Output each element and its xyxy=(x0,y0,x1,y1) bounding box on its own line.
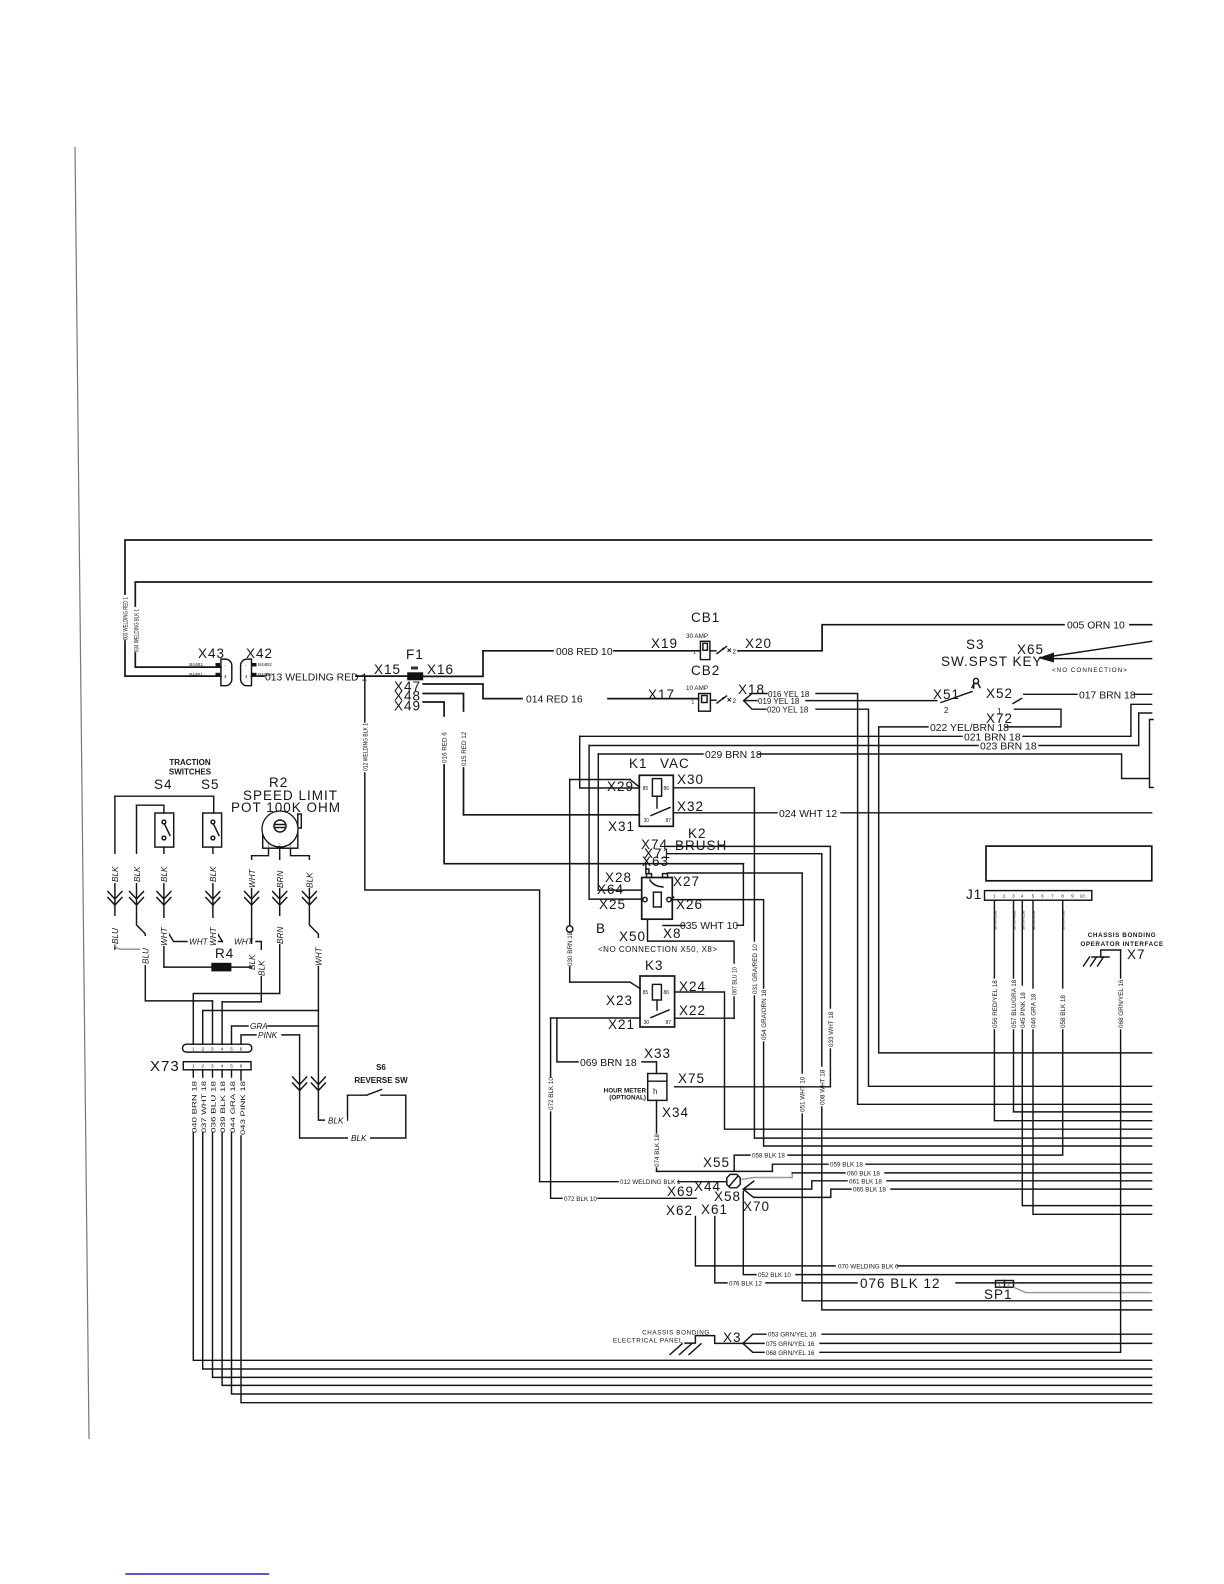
left sheet border xyxy=(75,147,89,1439)
wire 014 RED 16 to CB2 xyxy=(526,695,699,706)
node X16 xyxy=(427,662,454,677)
svg-text:K1: K1 xyxy=(629,756,648,771)
svg-text:X23: X23 xyxy=(606,993,633,1008)
note no connection X50 X8 xyxy=(598,945,718,954)
svg-text:X32: X32 xyxy=(677,799,704,814)
wire pot leg2 BRN to pin1 xyxy=(193,848,285,1044)
wire X47 branch to 014 RED 16 xyxy=(423,684,522,699)
node X18 xyxy=(738,682,765,697)
svg-text:86: 86 xyxy=(664,990,670,996)
svg-text:4: 4 xyxy=(221,1047,224,1052)
node X19 xyxy=(651,636,678,651)
svg-text:10 AMP: 10 AMP xyxy=(686,685,708,692)
node X62 wire 070 WELDING BLK 6 xyxy=(666,1203,1152,1270)
svg-text:S4: S4 xyxy=(154,777,173,792)
wire J1 pin8 058 BLK 18 riser xyxy=(1060,995,1067,1028)
circuit breaker CB2 10 AMP xyxy=(686,663,737,711)
wire X73-4 to right edge xyxy=(222,1070,1152,1386)
wire 029 BRN 18 xyxy=(598,750,1149,779)
svg-text:6: 6 xyxy=(240,1064,243,1069)
wire 059 BLK 18 xyxy=(772,1162,1151,1172)
svg-text:X3: X3 xyxy=(723,1330,742,1345)
connector X73 row1 xyxy=(183,1044,252,1052)
svg-text:X17: X17 xyxy=(648,687,675,702)
svg-text:069 BRN 18: 069 BRN 18 xyxy=(580,1058,637,1069)
node X55 junction xyxy=(657,1155,773,1171)
wire J1 pin3 057 BLU/GRA 18 xyxy=(1011,900,1152,1112)
wire 065 BLK 18 xyxy=(743,1187,1151,1198)
svg-text:B44B1: B44B1 xyxy=(189,662,203,667)
connector J1 xyxy=(966,887,1092,902)
svg-text:(OPTIONAL): (OPTIONAL) xyxy=(609,1095,646,1102)
svg-text:WHT: WHT xyxy=(209,926,218,946)
svg-text:2: 2 xyxy=(202,1047,205,1052)
svg-text:1: 1 xyxy=(692,700,695,706)
wire WHT bus xyxy=(189,938,261,1002)
svg-text:3: 3 xyxy=(1012,894,1015,899)
svg-text:061 BLK 18: 061 BLK 18 xyxy=(849,1178,882,1185)
labels X73 output wires xyxy=(191,1080,247,1135)
svg-text:2: 2 xyxy=(202,1064,205,1069)
svg-text:074 BLK 18: 074 BLK 18 xyxy=(654,1134,661,1167)
svg-text:003 WELDING RED 1: 003 WELDING RED 1 xyxy=(123,597,130,640)
switch S6 REVERSE SW xyxy=(348,1063,409,1095)
svg-text:WHT: WHT xyxy=(315,946,324,966)
svg-text:052 BLK 10: 052 BLK 10 xyxy=(758,1272,791,1279)
svg-text:B: B xyxy=(596,921,606,936)
wire X73-2 to right edge xyxy=(203,1070,1152,1369)
hour meter optional xyxy=(604,1074,667,1102)
svg-text:3: 3 xyxy=(211,1064,214,1069)
wire 053 GRN/YEL 16 xyxy=(743,1332,1152,1344)
svg-text:4: 4 xyxy=(245,674,248,679)
wire fuse output node xyxy=(423,651,483,677)
svg-text:8: 8 xyxy=(1061,894,1064,899)
svg-text:060 BLK 18: 060 BLK 18 xyxy=(847,1170,880,1177)
svg-text:X62: X62 xyxy=(666,1203,693,1218)
svg-text:4.75R: 4.75R xyxy=(214,965,228,971)
svg-text:053 GRN/YEL 16: 053 GRN/YEL 16 xyxy=(768,1332,817,1339)
ground chassis bonding operator interface X7 xyxy=(1080,932,1163,966)
svg-text:S3: S3 xyxy=(966,637,985,652)
svg-text:X21: X21 xyxy=(608,1017,635,1032)
wire X73-3 to right edge xyxy=(213,1070,1152,1378)
wire 068 GRN/YEL 16 from X7 xyxy=(1118,950,1125,1352)
node X64 wire from 029 riser xyxy=(597,754,642,897)
node X74 wire to 033 WHT 18 xyxy=(641,837,835,1087)
svg-text:2: 2 xyxy=(733,698,737,705)
wire X73-1 to right edge xyxy=(193,1070,1151,1361)
svg-text:2: 2 xyxy=(1007,1282,1010,1287)
svg-text:015 RED 12: 015 RED 12 xyxy=(461,731,468,766)
svg-text:WHT: WHT xyxy=(160,926,169,946)
svg-text:87: 87 xyxy=(666,818,672,824)
wire harness BLK/BLU left 2 xyxy=(132,805,213,1001)
svg-text:OPERATOR INTERFACE: OPERATOR INTERFACE xyxy=(1080,941,1163,948)
node X52 xyxy=(986,686,1013,716)
wire harness BLK/BLU left 1 xyxy=(110,796,145,949)
svg-text:X51: X51 xyxy=(933,687,960,702)
connector X42 xyxy=(241,646,273,686)
svg-text:031 GRA/RED 10: 031 GRA/RED 10 xyxy=(752,944,759,994)
wire PINK to S6 xyxy=(241,1031,406,1143)
svg-text:X20: X20 xyxy=(745,636,772,651)
svg-text:BLK: BLK xyxy=(306,872,315,888)
svg-text:h: h xyxy=(653,1087,657,1096)
node X70 wire 052 BLK 10 xyxy=(743,1192,1152,1280)
svg-text:X65: X65 xyxy=(1017,642,1044,657)
resistor R4 4.75R xyxy=(164,946,252,971)
svg-text:86: 86 xyxy=(664,786,670,792)
svg-text:X49: X49 xyxy=(394,699,421,714)
node X25 wire from 023 riser xyxy=(589,746,642,913)
svg-text:BLK: BLK xyxy=(351,1134,367,1143)
node X34 wire 074 BLK 18 xyxy=(654,1100,689,1171)
svg-text:BRN: BRN xyxy=(276,927,285,944)
blue reference line bottom xyxy=(125,1573,269,1575)
svg-text:X7: X7 xyxy=(1127,947,1146,962)
svg-text:X16: X16 xyxy=(427,662,454,677)
node X24 loop to X22 xyxy=(675,979,725,1018)
svg-text:<NO CONNECTION X50, X8>: <NO CONNECTION X50, X8> xyxy=(598,945,718,954)
svg-text:X29: X29 xyxy=(607,779,634,794)
svg-text:X30: X30 xyxy=(677,772,704,787)
node X33 xyxy=(644,1046,671,1074)
svg-text:BLU: BLU xyxy=(142,948,151,964)
svg-text:BLK: BLK xyxy=(328,1117,344,1126)
svg-text:X15: X15 xyxy=(374,662,401,677)
ground chassis bonding electrical panel X3 xyxy=(613,1330,743,1355)
svg-text:38-00-0038: 38-00-0038 xyxy=(1062,911,1066,930)
svg-text:040 BRN 18: 040 BRN 18 xyxy=(191,1080,198,1133)
svg-text:BRUSH: BRUSH xyxy=(675,838,727,853)
svg-text:6: 6 xyxy=(240,1047,243,1052)
svg-text:REVERSE SW: REVERSE SW xyxy=(354,1076,408,1085)
svg-text:BLK: BLK xyxy=(209,866,218,882)
wire 061 BLK 18 xyxy=(743,1178,1151,1189)
svg-text:044 GRA 18: 044 GRA 18 xyxy=(230,1080,237,1133)
node X22 xyxy=(675,1003,735,1018)
node X48 xyxy=(394,689,421,704)
svg-text:X8: X8 xyxy=(663,926,682,941)
svg-text:017 BRN 18: 017 BRN 18 xyxy=(1079,690,1136,701)
wire 021 BRN 18 xyxy=(580,704,1152,743)
svg-text:065 BLK 18: 065 BLK 18 xyxy=(853,1187,886,1194)
wire J1 pin5 046 GRA 18 xyxy=(1031,900,1152,1214)
relay K1 VAC xyxy=(629,756,690,826)
svg-text:014 RED 16: 014 RED 16 xyxy=(526,695,583,706)
svg-text:039 BLK 18: 039 BLK 18 xyxy=(220,1080,227,1133)
module box above J1 xyxy=(986,846,1152,881)
svg-text:X33: X33 xyxy=(644,1046,671,1061)
svg-text:059 BLK 18: 059 BLK 18 xyxy=(830,1162,863,1169)
svg-text:SP1: SP1 xyxy=(984,1287,1013,1302)
svg-text:9: 9 xyxy=(1071,894,1074,899)
svg-text:30: 30 xyxy=(644,818,650,824)
wire X22 branch down to right edge xyxy=(725,1018,1152,1129)
svg-text:2: 2 xyxy=(278,843,281,848)
svg-text:BLK: BLK xyxy=(160,866,169,882)
svg-text:3: 3 xyxy=(289,843,292,848)
svg-text:072 BLK 10: 072 BLK 10 xyxy=(564,1196,597,1203)
svg-text:CHASSIS BONDING: CHASSIS BONDING xyxy=(1088,932,1156,939)
wire GRA to S6 xyxy=(232,1022,348,1126)
wire X20 to 005 ORN 10 xyxy=(738,621,1152,651)
svg-text:1: 1 xyxy=(192,1047,195,1052)
wire X49 branch 016 RED 6 xyxy=(423,702,743,864)
svg-text:5: 5 xyxy=(1032,894,1035,899)
svg-text:X27: X27 xyxy=(673,874,700,889)
svg-text:013 WELDING RED 1: 013 WELDING RED 1 xyxy=(265,673,367,684)
label 035 WHT 10 on X63 wire xyxy=(680,864,743,932)
svg-text:6: 6 xyxy=(1041,894,1044,899)
splice X44 hexagon on 012 WELDING BLK 1 xyxy=(540,1174,741,1194)
label 003 WELDING RED 1 xyxy=(123,597,130,640)
node X23 wire from B xyxy=(570,982,640,1008)
svg-text:005 ORN 10: 005 ORN 10 xyxy=(1067,621,1125,632)
svg-text:K3: K3 xyxy=(645,958,664,973)
svg-text:7: 7 xyxy=(1051,894,1054,899)
svg-text:045 PINK 18: 045 PINK 18 xyxy=(1020,992,1027,1028)
svg-text:R4: R4 xyxy=(215,946,234,961)
wire 034 WELDING BLK 1 second bus xyxy=(135,582,1151,667)
wire S5 lower BLK/WHT xyxy=(208,847,223,946)
wire pot leg3 BLK/WHT xyxy=(291,848,324,1026)
svg-text:2: 2 xyxy=(733,649,737,656)
node X69 end of 072 xyxy=(667,1184,694,1199)
node X31 wire from 015 RED 12 xyxy=(464,815,640,834)
wire J1 pin1 056 RED/YEL 18 xyxy=(992,900,1152,1120)
wire 016 YEL 18 xyxy=(744,690,1152,1105)
svg-text:046 GRA 18: 046 GRA 18 xyxy=(1031,993,1038,1028)
svg-text:030 BRN 18: 030 BRN 18 xyxy=(567,931,574,966)
svg-text:1: 1 xyxy=(267,843,270,848)
svg-text:S5: S5 xyxy=(201,777,220,792)
wire 019 YEL 18 to key switch xyxy=(744,697,937,706)
svg-text:X22: X22 xyxy=(679,1003,706,1018)
svg-text:1: 1 xyxy=(693,650,696,656)
wire 072 BLK 10 to X69 xyxy=(548,1018,696,1203)
svg-text:016 RED 6: 016 RED 6 xyxy=(442,732,449,763)
wire 017 BRN 18 xyxy=(1024,690,1152,701)
svg-text:10: 10 xyxy=(1080,894,1086,899)
svg-text:1: 1 xyxy=(993,894,996,899)
svg-text:30: 30 xyxy=(644,1020,650,1026)
wire 068 GRN/YEL 16 from X3 xyxy=(743,1343,1121,1356)
svg-text:036 BLU 18: 036 BLU 18 xyxy=(211,1080,218,1133)
svg-text:057 BLU/GRA 18: 057 BLU/GRA 18 xyxy=(1011,979,1018,1028)
node X49 xyxy=(394,699,421,714)
svg-text:X69: X69 xyxy=(667,1184,694,1199)
svg-text:070 WELDING BLK 6: 070 WELDING BLK 6 xyxy=(838,1263,899,1270)
wire 008 RED 10 to CB1 xyxy=(483,647,700,658)
svg-text:BLK: BLK xyxy=(258,960,267,976)
node X65 no-connection arrow xyxy=(1017,641,1152,674)
svg-text:023 BRN 18: 023 BRN 18 xyxy=(980,742,1037,753)
svg-text:F1: F1 xyxy=(406,647,424,662)
splice chevrons row xyxy=(108,892,317,906)
connector X73 row2 xyxy=(150,1058,251,1075)
node X71 wire to 008 WHT 18 xyxy=(644,846,1152,1310)
node X15 xyxy=(374,662,401,677)
switch S4 xyxy=(154,777,174,847)
wire X73-5 to right edge xyxy=(232,1070,1152,1394)
svg-text:ELECTRICAL PANEL: ELECTRICAL PANEL xyxy=(613,1338,683,1345)
J1 pin cable codes xyxy=(993,911,1065,930)
svg-text:058 BLK 18: 058 BLK 18 xyxy=(752,1153,785,1160)
svg-text:5: 5 xyxy=(230,1047,233,1052)
svg-text:X31: X31 xyxy=(608,819,635,834)
svg-text:054 GRA/ORN 18: 054 GRA/ORN 18 xyxy=(761,989,768,1040)
node X29 xyxy=(570,736,640,794)
wire 058 BLK 18 to J1 pin8 xyxy=(734,900,1062,1171)
connector bracket right edge xyxy=(1150,720,1154,788)
splice chevrons S6 xyxy=(293,1077,326,1091)
node X51 xyxy=(933,687,960,715)
wire pin4 riser xyxy=(221,1002,223,1044)
wire S4 lower BLK/WHT xyxy=(159,847,187,967)
svg-text:X55: X55 xyxy=(703,1155,730,1170)
svg-text:X70: X70 xyxy=(743,1199,770,1214)
svg-text:85: 85 xyxy=(643,990,649,996)
node X75 wire xyxy=(675,1071,831,1087)
switch S5 xyxy=(201,777,222,847)
svg-text:HOUR METER: HOUR METER xyxy=(604,1088,647,1095)
svg-text:BLK: BLK xyxy=(133,866,142,882)
svg-text:008 RED 10: 008 RED 10 xyxy=(556,647,613,658)
label 034 WELDING BLK 1 xyxy=(134,609,141,652)
svg-text:1: 1 xyxy=(998,1282,1001,1287)
svg-text:X19: X19 xyxy=(651,636,678,651)
svg-text:051 WHT 10: 051 WHT 10 xyxy=(800,1076,807,1112)
wire 060 BLK 18 gray feeder xyxy=(741,1170,1152,1179)
node X32 wire 024 WHT 12 xyxy=(673,799,1151,820)
svg-text:TRACTION: TRACTION xyxy=(169,758,211,767)
node X47 xyxy=(394,679,421,694)
svg-text:X52: X52 xyxy=(986,686,1013,701)
relay K2 BRUSH xyxy=(642,826,728,919)
wire J1 pin4 045 PINK 18 xyxy=(1020,900,1152,1205)
svg-text:PINK: PINK xyxy=(258,1031,278,1040)
pot R2 SPEED LIMIT 100K OHM xyxy=(231,775,341,848)
node X63 on 016 RED 6 line xyxy=(642,854,669,874)
svg-text:X50: X50 xyxy=(619,929,646,944)
svg-text:058 BLK 18: 058 BLK 18 xyxy=(1060,995,1067,1028)
svg-text:4: 4 xyxy=(221,1064,224,1069)
svg-text:4: 4 xyxy=(1021,894,1024,899)
svg-text:<NO CONNECTION>: <NO CONNECTION> xyxy=(1052,667,1128,674)
wire 003 WELDING RED 1 top bus xyxy=(125,540,1152,676)
svg-text:VAC: VAC xyxy=(660,756,690,771)
wire X73-6 to right edge xyxy=(241,1070,1152,1403)
wire 023 BRN 18 xyxy=(589,713,1152,753)
svg-text:X75: X75 xyxy=(678,1071,705,1086)
switch S3 SW.SPST KEY xyxy=(941,637,1043,704)
node X72 wire 022 YEL/BRN 18 xyxy=(879,709,1152,1053)
wire pot leg1 WHT/BLK to R4 xyxy=(247,848,269,976)
svg-text:024 WHT 12: 024 WHT 12 xyxy=(779,809,837,820)
label traction switches xyxy=(169,758,212,777)
svg-text:2: 2 xyxy=(1003,894,1006,899)
wire S4 S5 top loop xyxy=(115,796,214,813)
node X61 wire 076 BLK 12 xyxy=(701,1202,1152,1291)
svg-text:067 BLU 10: 067 BLU 10 xyxy=(732,967,739,995)
svg-text:033 WHT 18: 033 WHT 18 xyxy=(828,1011,835,1047)
node X26 wire to 054 GRA/ORN 18 xyxy=(672,897,1151,1146)
svg-text:068 GRN/YEL 16: 068 GRN/YEL 16 xyxy=(766,1350,815,1357)
svg-text:076 BLK 12: 076 BLK 12 xyxy=(860,1276,941,1291)
wire 020 YEL 18 xyxy=(744,701,1152,1087)
svg-text:SWITCHES: SWITCHES xyxy=(169,768,212,777)
svg-text:CB1: CB1 xyxy=(691,610,720,625)
node X20 xyxy=(745,636,772,651)
wire 012 WELDING BLK 1 vertical from X42 node xyxy=(362,676,539,1182)
svg-text:BLK: BLK xyxy=(111,866,120,882)
svg-text:068 GRN/YEL 16: 068 GRN/YEL 16 xyxy=(1118,979,1125,1028)
svg-text:1: 1 xyxy=(192,1064,195,1069)
connector X43 xyxy=(189,646,232,686)
node X17 xyxy=(648,687,675,702)
svg-text:2: 2 xyxy=(944,706,949,715)
svg-text:035 WHT 10: 035 WHT 10 xyxy=(680,921,738,932)
node B stud and wire 030 BRN 18 xyxy=(567,780,607,983)
wire pin2 riser to pot WHT xyxy=(203,1011,319,1045)
svg-text:037 WHT 18: 037 WHT 18 xyxy=(201,1080,208,1133)
svg-text:072 BLK 10: 072 BLK 10 xyxy=(548,1077,555,1110)
connector X58 chevron xyxy=(714,1181,754,1204)
node X50 wire 067 BLU 10 xyxy=(619,919,739,1018)
splice SP1 xyxy=(984,1281,1152,1303)
svg-text:056 RED/YEL 18: 056 RED/YEL 18 xyxy=(992,980,999,1028)
circuit breaker CB1 30 AMP xyxy=(686,610,737,660)
svg-text:85: 85 xyxy=(643,786,649,792)
wire X48 branch 015 RED 12 xyxy=(423,694,468,815)
svg-text:30 AMP: 30 AMP xyxy=(686,633,708,640)
svg-text:4: 4 xyxy=(224,674,227,679)
node X30 wire to 031 GRA/RED 10 xyxy=(673,772,1151,1138)
svg-text:J1: J1 xyxy=(966,887,982,902)
svg-text:87: 87 xyxy=(666,1020,672,1026)
svg-text:B44B1: B44B1 xyxy=(189,672,203,677)
svg-text:WHT: WHT xyxy=(189,938,209,947)
svg-text:5: 5 xyxy=(230,1064,233,1069)
wire 069 BRN 18 to X33 xyxy=(557,1018,657,1069)
svg-text:043 PINK 18: 043 PINK 18 xyxy=(240,1080,247,1135)
node X28 xyxy=(605,869,649,885)
svg-text:X61: X61 xyxy=(701,1202,728,1217)
fuse F1 175A xyxy=(406,647,424,681)
relay K3 xyxy=(640,958,675,1027)
node X27 wire to 051 WHT 10 xyxy=(667,873,1151,1301)
svg-text:076 BLK 12: 076 BLK 12 xyxy=(729,1280,762,1287)
wire 013 WELDING RED 1 to fuse F1 xyxy=(252,673,408,684)
node X8 xyxy=(663,926,685,942)
svg-text:B44B2: B44B2 xyxy=(258,662,272,667)
svg-text:BLU: BLU xyxy=(111,928,120,944)
svg-text:075 GRN/YEL 16: 075 GRN/YEL 16 xyxy=(766,1341,815,1348)
svg-text:BRN: BRN xyxy=(276,871,285,888)
wire 075 GRN/YEL 16 xyxy=(743,1341,1152,1348)
node X21 wire xyxy=(551,1017,640,1032)
svg-text:020 YEL 18: 020 YEL 18 xyxy=(767,706,809,715)
svg-text:S6: S6 xyxy=(376,1063,386,1072)
svg-text:012 WELDING BLK 1: 012 WELDING BLK 1 xyxy=(362,723,369,771)
svg-text:X73: X73 xyxy=(150,1058,180,1075)
svg-text:CB2: CB2 xyxy=(691,663,720,678)
svg-text:034 WELDING BLK 1: 034 WELDING BLK 1 xyxy=(134,609,141,652)
svg-text:GRA: GRA xyxy=(250,1022,268,1031)
wire pin3 riser xyxy=(212,1001,214,1044)
